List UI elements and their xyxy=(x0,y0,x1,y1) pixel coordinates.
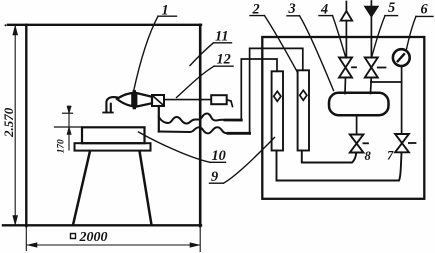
valve 4 (bowtie) xyxy=(339,58,356,94)
svg-text:12: 12 xyxy=(217,52,231,68)
valve 5 (bowtie) xyxy=(365,58,386,94)
line gun to connector xyxy=(164,99,211,101)
circuit enclosure frame xyxy=(262,37,424,199)
bottom dimension line 2000 xyxy=(26,226,200,252)
svg-text:2000: 2000 xyxy=(79,230,108,245)
hose 2 (lower wavy) xyxy=(159,127,250,133)
rotameter 9 (left tube) xyxy=(272,71,283,150)
svg-text:5: 5 xyxy=(388,0,395,16)
svg-text:6: 6 xyxy=(421,2,429,18)
label 2 xyxy=(250,2,297,73)
label 3 xyxy=(287,1,334,91)
table slab (item 10 assembly) xyxy=(75,143,151,150)
gun drop pipe xyxy=(158,106,160,132)
label 12 xyxy=(177,52,234,98)
right leg xyxy=(140,151,152,225)
svg-text:3: 3 xyxy=(288,1,296,17)
spray gun (item 1) nozzle bend xyxy=(103,97,117,112)
label 5 xyxy=(372,0,398,56)
label 4 xyxy=(319,2,345,57)
spray gun body cones xyxy=(117,92,152,108)
svg-text:7: 7 xyxy=(387,149,394,163)
float of right rotameter xyxy=(300,90,307,100)
vent funnel above valve 4 xyxy=(341,2,353,58)
supply funnel above valve 5 xyxy=(365,1,377,57)
riser 1 to left rotameter xyxy=(241,59,277,120)
dimension text square 2000 xyxy=(71,230,108,245)
rotameter 2 (right tube) xyxy=(298,70,309,150)
tank (item 3) xyxy=(329,93,389,115)
float of left rotameter xyxy=(274,91,281,101)
label 11 xyxy=(190,29,232,66)
right tube bottom line A to valve 8 xyxy=(302,151,357,163)
scan dot xyxy=(5,24,7,26)
left tube bottom line B to valve 7 xyxy=(277,151,402,181)
tank bottom outlet xyxy=(356,115,358,134)
hose 1 end stub xyxy=(225,119,241,122)
label 6 xyxy=(406,2,433,51)
riser 2 to right rotameter xyxy=(250,48,303,133)
vertical dimension line 2.570 xyxy=(13,26,18,225)
gauge riser down to valve 7 xyxy=(401,67,403,134)
label 9 xyxy=(210,138,275,186)
label 1 xyxy=(133,3,176,93)
label 10 xyxy=(139,132,226,164)
hose 2 end stub xyxy=(228,132,250,135)
gun end square with diagonal xyxy=(152,95,164,106)
svg-text:170: 170 xyxy=(57,139,67,153)
pressure gauge (item 6) xyxy=(393,49,410,66)
valve 7 (bowtie) xyxy=(395,134,415,152)
left leg xyxy=(73,151,90,225)
dimension 170 (gap nozzle to block) xyxy=(55,106,83,150)
hose 1 (upper wavy) xyxy=(159,114,242,124)
svg-text:8: 8 xyxy=(365,149,372,163)
connector rectangle (item 12 target) xyxy=(211,95,232,106)
block on table xyxy=(82,127,145,143)
chamber (item 11) outline xyxy=(3,25,201,226)
tee valve5 to gauge riser xyxy=(371,81,402,83)
svg-text:2.570: 2.570 xyxy=(1,107,16,138)
valve 8 (bowtie) xyxy=(350,135,368,153)
